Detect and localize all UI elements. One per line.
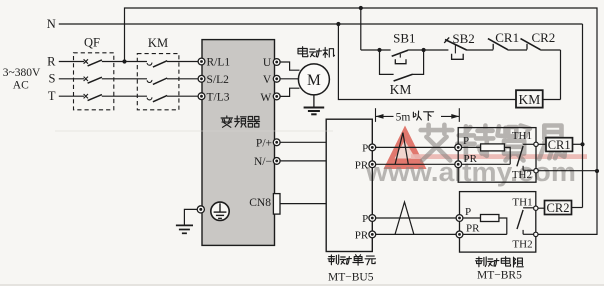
terminal R/L1 [198, 58, 205, 65]
resistor BR2 [481, 215, 499, 222]
terminal BU P upper [369, 144, 376, 151]
terminal BU P lower [369, 215, 376, 222]
terminal N/- [273, 158, 280, 165]
svg-text:PR: PR [464, 153, 478, 165]
wire CN8 to braking unit [280, 203, 326, 205]
wire S line segments [59, 78, 84, 80]
breaker QF dashed box [74, 53, 114, 110]
wire PE to external ground [184, 209, 197, 224]
wire CR2 coil to N vertical [572, 207, 583, 209]
scan edge bottom [0, 284, 604, 286]
svg-text:KM: KM [519, 92, 541, 107]
breaker QF pole T [84, 94, 88, 98]
svg-text:CN8: CN8 [249, 197, 271, 209]
inverter label 变频器 [221, 116, 232, 127]
svg-text:M: M [307, 72, 321, 89]
junction CR1 right [580, 142, 584, 146]
wire BU P lower to resistor 2 [376, 217, 456, 219]
svg-text:3~380V: 3~380V [3, 67, 41, 79]
twisted pair symbol upper [395, 133, 408, 165]
wire R line segments [59, 61, 84, 63]
wire BU PR upper to resistor 1 [376, 163, 455, 165]
label 电动机 [298, 47, 308, 57]
svg-text:TH1: TH1 [512, 130, 532, 142]
wire V to motor [280, 78, 298, 80]
dimension annotation 5m以下 [375, 108, 377, 122]
terminal BR1 PR [455, 161, 462, 168]
contact KM auxiliary NO [394, 74, 413, 81]
terminal BR2 TH2 [534, 232, 538, 236]
label 制动电阻 [476, 257, 487, 267]
terminal BU PR lower [369, 231, 376, 238]
watermark red A logo [384, 126, 427, 170]
svg-text:QF: QF [84, 35, 100, 49]
breaker QF pole R [84, 59, 88, 63]
watermark text 艾特贸易 [421, 125, 453, 161]
svg-text:N/−: N/− [254, 156, 272, 168]
svg-text:CR1: CR1 [548, 138, 571, 152]
svg-text:V: V [263, 74, 272, 86]
junction SB1 right [422, 48, 426, 52]
svg-text:SB2: SB2 [452, 31, 474, 46]
wire BR2 TH1 to CR2 coil [538, 207, 545, 209]
wire U to motor [280, 62, 299, 70]
braking resistor box lower [460, 192, 536, 253]
terminal BR2 PR [456, 231, 463, 238]
label 制动单元 [328, 255, 339, 265]
junction top wire to control rail drop [359, 6, 363, 10]
svg-text:R: R [47, 55, 56, 69]
junction N to control drop [336, 22, 340, 26]
wire P/+ to braking unit [280, 141, 326, 143]
wire N drop to control bottom rail [338, 24, 516, 100]
svg-text:N: N [47, 17, 56, 31]
wire KM coil to vertical [543, 99, 561, 101]
wire BR1 TH1 to CR1 coil [538, 143, 546, 145]
wire BU P upper to resistor 1 [376, 146, 455, 148]
wire CR2 to KM coil [560, 50, 562, 100]
connector CN8 [273, 194, 280, 215]
contactor KM main contact S [147, 80, 152, 83]
junction on R line [122, 59, 126, 63]
thermal switch BR2 [523, 207, 534, 209]
terminal U [273, 59, 280, 66]
svg-text:P/+: P/+ [256, 137, 272, 149]
thermal switch BR1 [523, 143, 534, 145]
braking unit box MT-BU5 [326, 119, 372, 251]
terminal BU PR upper [369, 161, 376, 168]
inverter PE circle symbol [211, 202, 229, 220]
wire control rail drop [360, 8, 362, 50]
pushbutton SB2 stop [445, 40, 467, 51]
svg-text:S: S [49, 72, 56, 86]
terminal BR2 TH1 [534, 206, 538, 210]
terminal W [273, 93, 280, 100]
wire right outer down to TH2 lower [538, 171, 597, 234]
wire N right side down to CR coils [582, 24, 584, 208]
svg-text:W: W [260, 92, 271, 104]
svg-text:T/L3: T/L3 [207, 91, 230, 103]
braking resistor box upper [458, 128, 536, 183]
svg-text:MT−BR5: MT−BR5 [477, 270, 522, 282]
coil CR2 [545, 201, 572, 215]
ground symbol at motor [313, 95, 315, 107]
contactor KM main contact R [147, 63, 152, 66]
svg-text:R/L1: R/L1 [207, 57, 231, 69]
terminal BR1 TH2 [534, 169, 538, 173]
svg-text:T: T [48, 89, 56, 103]
junction SB1 left [377, 48, 381, 52]
contact CR2 NC [526, 44, 528, 50]
svg-text:U: U [263, 57, 272, 69]
contactor KM main contact T [147, 97, 152, 100]
pushbutton SB1 start [392, 50, 408, 56]
wire N line [59, 23, 583, 25]
terminal BR1 P [455, 144, 462, 151]
wire BU PR lower to resistor 2 [376, 233, 456, 235]
ground symbol at inverter [176, 224, 193, 226]
terminal BR2 P [456, 215, 463, 222]
svg-text:CR1: CR1 [495, 30, 519, 45]
wire KM holding branch [380, 50, 394, 74]
wire T line segments [59, 95, 84, 97]
terminal PE ground [197, 206, 204, 213]
terminal S/L2 [198, 75, 205, 82]
contact CR1 NC [492, 44, 494, 50]
wire W to motor [280, 88, 299, 96]
terminal BR1 TH1 [534, 142, 538, 146]
watermark pink underline bar [411, 154, 587, 159]
svg-text:P: P [362, 213, 368, 225]
resistor BR1 [481, 144, 505, 151]
wire N/- to braking unit [280, 160, 326, 162]
svg-text:AC: AC [13, 80, 29, 92]
svg-text:SB1: SB1 [393, 31, 415, 46]
coil KM [516, 90, 543, 107]
terminal T/L3 [198, 93, 205, 100]
svg-text:PR: PR [355, 159, 369, 171]
svg-text:PR: PR [355, 230, 369, 242]
svg-text:TH2: TH2 [512, 238, 532, 250]
svg-text:P: P [465, 206, 471, 218]
wire CR1 coil to N vertical [573, 143, 583, 145]
breaker QF pole S [84, 77, 88, 81]
wire top phase line from R [125, 8, 598, 171]
inverter U1 body 变频器 [202, 40, 275, 246]
svg-text:5m: 5m [396, 111, 411, 123]
svg-text:CR2: CR2 [547, 201, 570, 215]
contactor KM dashed box [137, 54, 179, 110]
svg-text:KM: KM [390, 82, 412, 97]
svg-text:KM: KM [148, 36, 168, 50]
svg-text:MT−BU5: MT−BU5 [328, 272, 374, 284]
twisted pair symbol lower [395, 202, 414, 234]
terminal P/+ [273, 139, 280, 146]
svg-text:TH1: TH1 [512, 196, 532, 208]
svg-text:S/L2: S/L2 [207, 74, 230, 86]
svg-text:P: P [362, 143, 368, 155]
wire BR1 TH2 to outer vertical [538, 170, 597, 172]
wire control rail segments y50 [361, 49, 391, 51]
terminal V [273, 75, 280, 82]
scan artifact line [55, 130, 333, 132]
svg-text:CR2: CR2 [531, 30, 555, 45]
svg-text:TH2: TH2 [512, 169, 532, 181]
svg-text:PR: PR [466, 223, 480, 235]
motor M1 circle [298, 64, 329, 95]
coil CR1 [546, 138, 573, 152]
svg-text:P: P [463, 135, 469, 147]
junction right outer to TH2 upper wire [595, 169, 599, 173]
